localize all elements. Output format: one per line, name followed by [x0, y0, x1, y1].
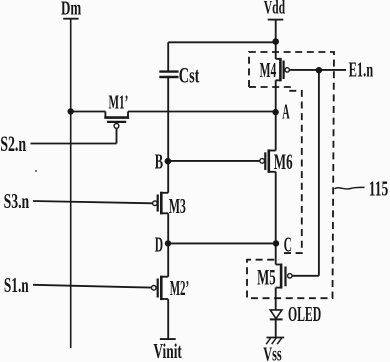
svg-text:B: B — [155, 149, 163, 173]
svg-text:M1’: M1’ — [109, 92, 129, 114]
svg-text:M5: M5 — [257, 264, 276, 289]
svg-text:D: D — [155, 232, 163, 256]
svg-text:Cst: Cst — [179, 62, 200, 87]
svg-text:M6: M6 — [274, 149, 293, 174]
svg-text:A: A — [282, 100, 290, 124]
svg-text:M4: M4 — [260, 58, 277, 82]
svg-text:S1.n: S1.n — [4, 273, 29, 297]
svg-text:S3.n: S3.n — [4, 189, 30, 213]
svg-text:M2’: M2’ — [170, 276, 190, 300]
svg-text:Dm: Dm — [61, 0, 81, 19]
svg-text:115: 115 — [369, 177, 388, 201]
svg-text:Vinit: Vinit — [153, 339, 182, 362]
svg-text:M3: M3 — [169, 194, 186, 218]
svg-text:Vdd: Vdd — [264, 0, 286, 19]
svg-text:OLED: OLED — [288, 302, 321, 326]
svg-text:Vss: Vss — [263, 345, 282, 362]
svg-text:C: C — [284, 233, 292, 257]
svg-text:S2.n: S2.n — [0, 131, 26, 156]
svg-text:E1.n: E1.n — [349, 58, 374, 82]
